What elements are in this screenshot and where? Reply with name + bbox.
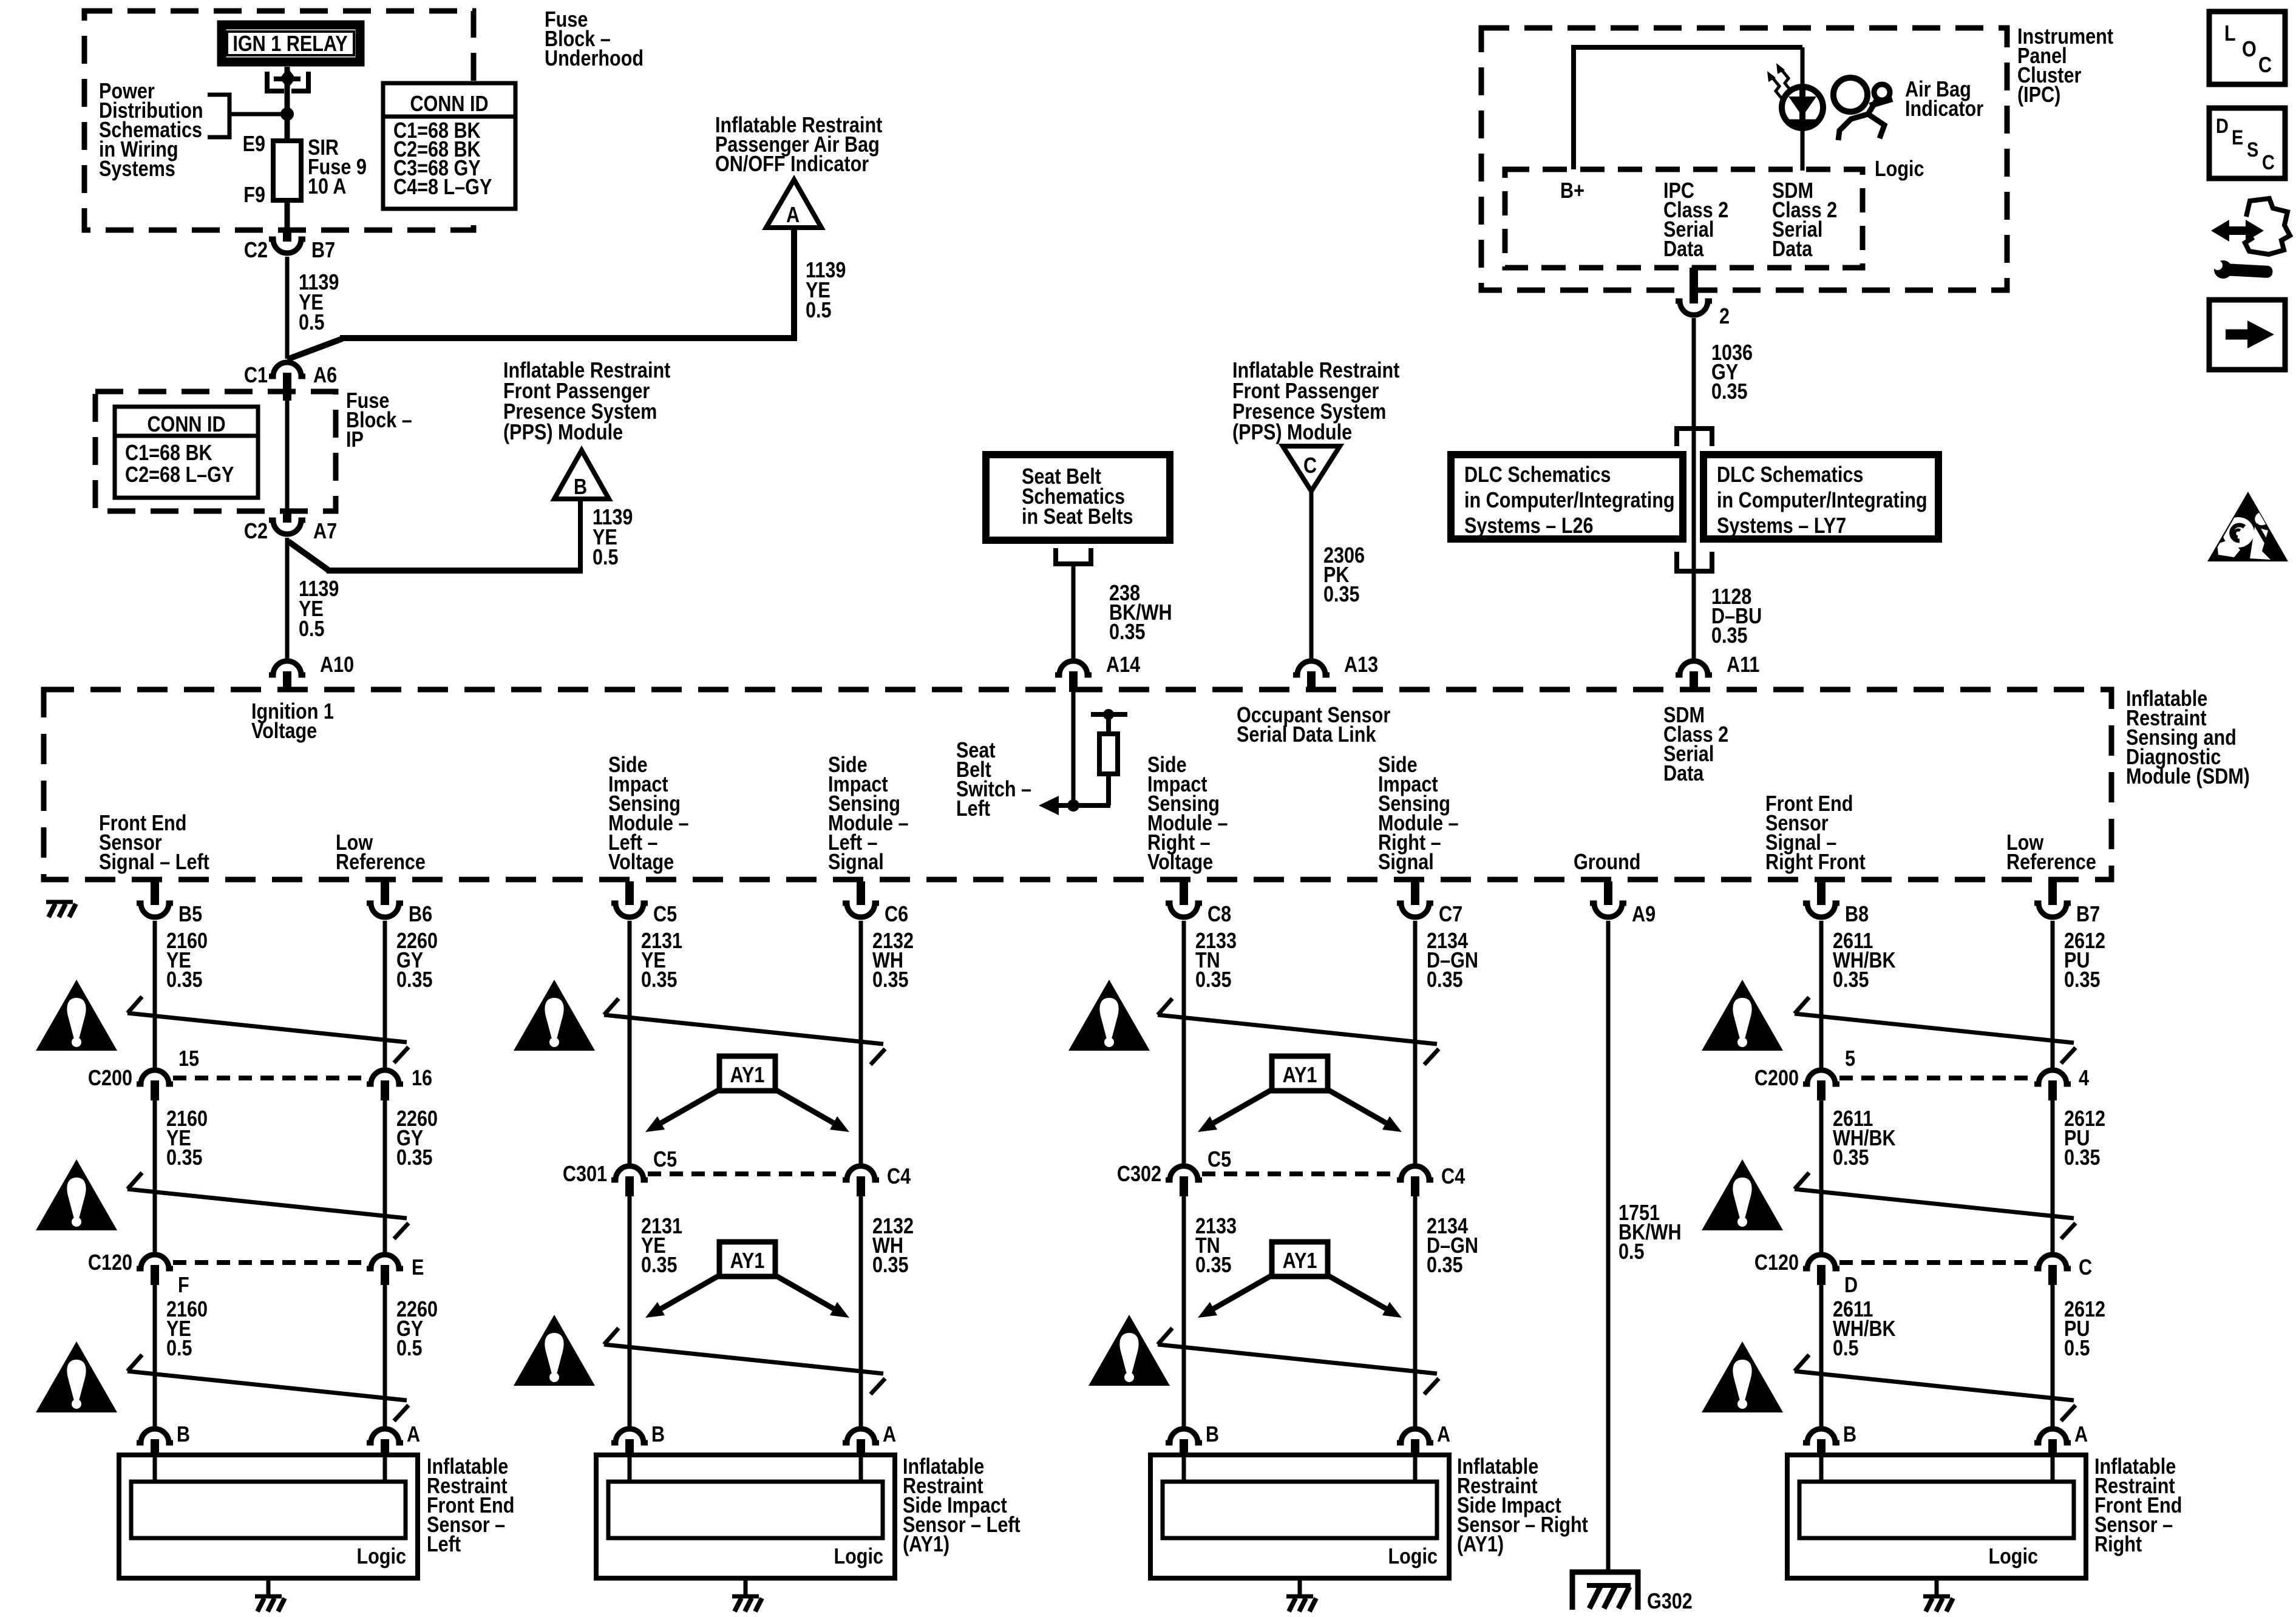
label Inflatable Restraint Side Impact Sensor Right AY1 [1457, 1455, 1588, 1557]
wire relay to junction [285, 67, 290, 116]
svg-text:C302: C302 [1117, 1162, 1161, 1187]
svg-text:4: 4 [2079, 1066, 2089, 1091]
svg-text:C1=68 BKC2=68 BKC3=68 GYC4=8 L: C1=68 BKC2=68 BKC3=68 GYC4=8 L–GY [393, 119, 492, 200]
wire junction to fuse [285, 114, 290, 143]
connector A right FES [2034, 1429, 2071, 1443]
label pin 4 [2079, 1066, 2089, 1091]
svg-text:C6: C6 [885, 903, 908, 927]
label Occupant Sensor Serial Data Link [1237, 703, 1390, 747]
svg-text:C5: C5 [653, 903, 677, 927]
label A9 [1632, 903, 1656, 927]
LED light arrows [1767, 63, 1792, 100]
label Inflatable Restraint Front End Sensor Left [427, 1455, 514, 1557]
label 2612 PU 0.35 row2 [2064, 1107, 2105, 1170]
label C302 [1117, 1162, 1161, 1187]
label 2612 PU 0.35 row1 [2064, 929, 2105, 992]
svg-text:B6: B6 [409, 903, 432, 927]
svg-text:AY1: AY1 [730, 1249, 765, 1273]
IPC logic dashed box [1505, 169, 1863, 268]
label A left SIS [883, 1423, 896, 1447]
connector C2-B7 stub [283, 230, 291, 242]
label A11 [1727, 653, 1759, 677]
wire LED to logic box [1801, 126, 1805, 171]
svg-text:2: 2 [1719, 305, 1730, 329]
label SDM Class 2 Serial Data in IPC [1772, 179, 1837, 262]
label 1139 YE 0.5 branch B [593, 506, 633, 570]
connector A right SIS stub [1411, 1439, 1419, 1457]
fuse F9 SIR Fuse 9 10A [273, 141, 301, 200]
svg-text:A: A [786, 203, 800, 228]
svg-text:AY1: AY1 [730, 1063, 765, 1088]
icon DESC box [2209, 108, 2285, 178]
label 2160 YE 0.35 row2 [166, 1107, 208, 1170]
svg-text:Logic: Logic [1388, 1545, 1438, 1569]
svg-text:O: O [2242, 38, 2257, 62]
label 1128 D-BU 0.35 [1711, 585, 1762, 648]
wire pin2 down [1692, 318, 1696, 659]
callout AY1 upper left [645, 1056, 849, 1132]
label 2131 YE 0.35 row1 [641, 929, 682, 992]
label Ignition 1 Voltage [251, 700, 334, 744]
svg-text:A6: A6 [313, 364, 337, 388]
twist marker 2 [604, 998, 885, 1065]
label B8 [1845, 903, 1869, 927]
wire segment row1 [1413, 921, 1418, 1164]
connector A11 [1676, 661, 1712, 675]
connector C2-A7 [269, 520, 305, 534]
wire B+ up and across [1574, 47, 1802, 169]
connector A10 [269, 661, 305, 675]
inflatable restraint front end sensor right box [1787, 1455, 2086, 1595]
label 2 [1719, 305, 1730, 329]
triangle ref A [766, 180, 821, 228]
label 2133 TN 0.35 row1 [1195, 929, 1237, 992]
connector C200 right pair [1803, 1070, 2071, 1100]
label pin 16 [412, 1066, 432, 1091]
twist marker 6 [1795, 1173, 2076, 1239]
wire diagonal to A branch [287, 339, 342, 359]
label Air Bag Indicator [1905, 78, 1983, 121]
connector B left FES [137, 1429, 173, 1443]
connector A right SIS [1397, 1429, 1433, 1443]
connector C302 pair [1166, 1166, 1433, 1196]
svg-text:L: L [2224, 22, 2236, 46]
label 2611 WH BK 0.5 row3 [1833, 1298, 1896, 1361]
label Side Impact Sensing Module Right Signal [1378, 753, 1459, 875]
fuse block underhood dashed box [84, 11, 474, 230]
wire segment row1 [2051, 921, 2055, 1068]
connector A left SIS stub [857, 1439, 865, 1457]
svg-text:A: A [2074, 1423, 2088, 1447]
ground below right FES [1923, 1596, 1953, 1612]
bracket to DLC [1677, 429, 1712, 446]
DLC schematics box L26 [1451, 455, 1683, 539]
label 1751 BK WH 0.5 [1618, 1201, 1682, 1264]
svg-text:B: B [1206, 1423, 1219, 1447]
ground wire A9 down [1606, 921, 1611, 1572]
label SIR Fuse 9 10 A [308, 136, 367, 199]
wire bracket to junction [229, 112, 287, 117]
svg-text:5: 5 [1845, 1047, 1855, 1071]
label SDM Class 2 Serial Data [1663, 703, 1728, 786]
svg-text:Occupant SensorSerial Data Lin: Occupant SensorSerial Data Link [1237, 703, 1390, 747]
warning triangle 7 [514, 1315, 595, 1386]
label Power Distribution Schematics in Wiring Systems [99, 80, 203, 181]
label Inflatable Restraint Passenger Air Bag ON OFF Indicator [715, 114, 882, 177]
label A6 [313, 364, 337, 388]
svg-text:C4: C4 [887, 1165, 911, 1189]
svg-text:A: A [1437, 1423, 1450, 1447]
wire segment row3 [2051, 1285, 2055, 1426]
label Fuse Block Underhood [545, 8, 644, 71]
svg-text:AY1: AY1 [1283, 1249, 1317, 1273]
wire seat belt to A14 [1072, 564, 1076, 659]
svg-text:E9: E9 [243, 132, 265, 157]
svg-text:C2: C2 [244, 239, 268, 263]
label pin F [178, 1273, 189, 1298]
label E9 [243, 132, 265, 157]
svg-text:CONN ID: CONN ID [147, 413, 225, 437]
svg-text:C200: C200 [1754, 1066, 1799, 1091]
label 2160 YE 0.35 row1 [166, 929, 208, 992]
label C2 at A7 [244, 520, 268, 544]
label 1139 YE 0.5 branch A [806, 259, 846, 323]
inflatable restraint side impact sensor left box [596, 1455, 895, 1595]
svg-text:Logic: Logic [356, 1545, 406, 1569]
label 238 BK WH 0.35 [1109, 581, 1172, 645]
bracket to power distribution [208, 95, 229, 137]
svg-text:G302: G302 [1647, 1590, 1693, 1614]
wire A branch horizontal [340, 335, 797, 341]
ground below left SIS [732, 1596, 762, 1612]
label C120 right [1754, 1251, 1799, 1275]
bracket below seat belt box [1056, 548, 1091, 564]
wire A branch vertical [791, 226, 797, 341]
label Seat Belt Switch Left [956, 739, 1031, 821]
svg-text:C7: C7 [1439, 903, 1462, 927]
twist marker 8 [1158, 1328, 1439, 1394]
svg-text:D: D [2216, 114, 2229, 138]
label Inflatable Restraint Side Impact Sensor Left AY1 [903, 1455, 1021, 1557]
label 2260 GY 0.5 row3 [396, 1298, 438, 1361]
svg-text:S: S [2247, 138, 2258, 161]
label G302 [1647, 1590, 1693, 1614]
label Low Reference right [2006, 831, 2096, 875]
label Inflatable Restraint Front Passenger Presence System PPS Module left [503, 359, 670, 445]
connector C6 [843, 903, 879, 917]
connector B left SIS stub [625, 1439, 634, 1457]
relay terminal bracket [267, 68, 308, 91]
svg-text:A7: A7 [313, 520, 337, 544]
wire B branch horizontal [327, 568, 583, 574]
svg-text:C: C [2079, 1256, 2092, 1280]
connector B left FES stub [151, 1439, 159, 1457]
svg-text:Logic: Logic [1875, 157, 1924, 181]
seat belt switch arrow [1039, 796, 1110, 815]
label C7 [1439, 903, 1462, 927]
wire segment row2 [1413, 1196, 1418, 1426]
connector B5 stub [151, 881, 159, 905]
svg-text:A14: A14 [1106, 653, 1140, 677]
svg-text:B+: B+ [1560, 179, 1584, 203]
svg-text:F: F [178, 1273, 189, 1298]
triangle ref C [1283, 446, 1340, 491]
svg-text:A9: A9 [1632, 903, 1656, 927]
svg-text:C120: C120 [1754, 1251, 1799, 1275]
wire B7 to C1 [285, 257, 290, 359]
label Side Impact Sensing Module Left Signal [828, 753, 909, 875]
svg-text:C2: C2 [244, 520, 268, 544]
twist marker 10 [1795, 1355, 2076, 1421]
twist marker 5 [127, 1173, 409, 1239]
twist marker 4 [1795, 997, 2076, 1063]
label pin C [2079, 1256, 2092, 1280]
connector C2-A7 stub [283, 511, 291, 523]
icon arrow box [2209, 300, 2285, 370]
label B5 [178, 903, 202, 927]
warning triangle 3 [1068, 980, 1150, 1051]
label B6 [409, 903, 432, 927]
conn id table IP [115, 407, 258, 498]
label 2260 GY 0.35 row1 [396, 929, 438, 992]
connector B6 stub [381, 881, 389, 905]
connector C8 [1166, 903, 1202, 917]
wire segment row2 [153, 1100, 157, 1252]
svg-text:C120: C120 [88, 1251, 132, 1275]
label Front End Sensor Signal Right Front [1765, 792, 1866, 875]
wire IPC pin2 inner [1692, 266, 1696, 279]
wire segment row2 [1819, 1100, 1824, 1252]
connector A left SIS [843, 1429, 879, 1443]
wire B branch vertical [578, 497, 583, 573]
label A right SIS [1437, 1423, 1450, 1447]
wire A7 down [285, 538, 290, 659]
svg-text:B7: B7 [2076, 903, 2100, 927]
connector A14 [1055, 661, 1092, 675]
connector B6 [367, 903, 403, 917]
connector B7 stub [2048, 881, 2057, 905]
twist marker 9 [127, 1355, 409, 1421]
label A left FES [407, 1423, 420, 1447]
callout AY1 upper right [1198, 1056, 1402, 1132]
twist marker 1 [127, 997, 409, 1063]
inflatable restraint front end sensor left box [119, 1455, 418, 1595]
wire segment row1 [1819, 921, 1824, 1068]
warning triangle 10 [1702, 1341, 1783, 1412]
label C120 left [88, 1251, 132, 1275]
instrument panel cluster dashed box [1481, 28, 2007, 290]
svg-text:Ground: Ground [1574, 850, 1640, 875]
svg-text:F9: F9 [243, 183, 265, 208]
label 2260 GY 0.35 row2 [396, 1107, 438, 1170]
wire C to A13 [1309, 489, 1314, 659]
svg-text:B: B [651, 1423, 665, 1447]
callout AY1 lower left [645, 1242, 849, 1318]
label C301 [563, 1162, 607, 1187]
ground G302 [1572, 1572, 1638, 1610]
label Seat Belt Schematics in Seat Belts [1022, 465, 1133, 529]
connector C2-B7 [269, 239, 305, 253]
svg-text:16: 16 [412, 1066, 432, 1091]
label 2133 TN 0.35 row2 [1195, 1215, 1237, 1278]
connector C6 stub [857, 881, 865, 905]
label 1036 GY 0.35 [1711, 341, 1753, 404]
label Ground [1574, 850, 1640, 875]
svg-text:CONN ID: CONN ID [410, 92, 488, 117]
wire segment row3 [383, 1285, 387, 1426]
label Instrument Panel Cluster IPC [2017, 25, 2113, 107]
inflatable restraint side impact sensor right box [1150, 1455, 1449, 1595]
icon arrows and wrench [2211, 198, 2290, 279]
label 1139 YE 0.5 segment1 [299, 271, 339, 335]
triangle ref B [554, 450, 609, 500]
connector A right FES stub [2048, 1439, 2057, 1457]
seat belt switch junction dot [1067, 799, 1079, 812]
label 2611 WH BK 0.35 row1 [1833, 929, 1896, 992]
connector B5 [137, 903, 173, 917]
label Inflatable Restraint Front End Sensor Right [2094, 1455, 2182, 1557]
connector C1-A6 [269, 362, 305, 376]
icon SIR caution triangle [2207, 492, 2288, 561]
icon LOC box [2209, 12, 2285, 84]
label B+ [1560, 179, 1584, 203]
svg-text:E: E [2232, 126, 2243, 149]
label A10 [320, 653, 354, 677]
svg-text:C8: C8 [1207, 903, 1231, 927]
label C200 left [88, 1066, 132, 1091]
connector B8 stub [1817, 881, 1826, 905]
seat belt switch resistor [1091, 709, 1127, 805]
label B right FES [1843, 1423, 1856, 1447]
connector B right SIS [1166, 1429, 1202, 1443]
connector C200 left pair [137, 1070, 403, 1100]
svg-text:C4: C4 [1441, 1165, 1465, 1189]
conn id table underhood [383, 83, 515, 209]
wire fuse to box edge [285, 200, 290, 232]
twist marker 7 [604, 1328, 885, 1394]
wire segment row2 [628, 1196, 632, 1426]
wire segment row1 [859, 921, 863, 1164]
connector C120 right pair [1803, 1255, 2071, 1285]
connector C8 stub [1180, 881, 1188, 905]
ground below left FES [255, 1596, 285, 1612]
ground below right SIS [1286, 1596, 1316, 1612]
label pin E [412, 1256, 424, 1280]
bracket below DLC boxes [1677, 552, 1712, 571]
label C302 C5 [1207, 1148, 1231, 1172]
conn id rows underhood [393, 119, 492, 200]
wire top to LED [1801, 47, 1805, 89]
connector 2 stub [1690, 268, 1698, 303]
label 2160 YE 0.5 row3 [166, 1298, 208, 1361]
label C2 left of B7 [244, 239, 268, 263]
label 2611 WH BK 0.35 row2 [1833, 1107, 1896, 1170]
svg-text:B7: B7 [311, 239, 335, 263]
svg-text:B: B [177, 1423, 190, 1447]
LED indicator lamp [1782, 87, 1823, 128]
label IPC Class 2 Serial Data [1663, 179, 1728, 262]
label Fuse Block IP [346, 389, 412, 452]
connector 2 [1676, 301, 1712, 315]
seat belt schematics box [986, 455, 1170, 540]
conn id title IP [147, 413, 225, 437]
wire segment row1 [383, 921, 387, 1068]
wire segment row2 [1182, 1196, 1186, 1426]
air bag indicator icon [1833, 78, 1892, 140]
warning triangle 2 [514, 980, 595, 1051]
wire DLC to A11 [1692, 571, 1696, 659]
svg-text:Inflatable RestraintPassenger: Inflatable RestraintPassenger Air BagON/… [715, 114, 882, 177]
DLC schematics box LY7 [1703, 455, 1938, 539]
label 2131 YE 0.35 row2 [641, 1215, 682, 1278]
wire segment row2 [859, 1196, 863, 1426]
label A14 [1106, 653, 1140, 677]
connector B right FES [1803, 1429, 1839, 1443]
connector C120 left pair [137, 1255, 403, 1285]
label Inflatable Restraint Sensing and Diagnostic Module SDM [2126, 687, 2250, 789]
svg-text:E: E [412, 1256, 424, 1280]
wire segment row2 [383, 1100, 387, 1252]
label IGN 1 RELAY [233, 32, 347, 56]
SDM dashed box [44, 690, 2111, 880]
wire A14 inside [1072, 692, 1076, 805]
svg-text:C301: C301 [563, 1162, 607, 1187]
label B left FES [177, 1423, 190, 1447]
connector C7 [1397, 903, 1433, 917]
svg-text:AY1: AY1 [1283, 1063, 1317, 1088]
svg-text:C5: C5 [1207, 1148, 1231, 1172]
conn id rows IP [125, 441, 234, 487]
svg-text:A11: A11 [1727, 653, 1759, 677]
connector B left SIS [611, 1429, 648, 1443]
label Side Impact Sensing Module Right Voltage [1147, 753, 1228, 875]
label pin 5 [1845, 1047, 1855, 1071]
warning triangle 6 [1702, 1159, 1783, 1230]
label Low Reference left [336, 831, 426, 875]
connector C7 stub [1411, 881, 1419, 905]
twist marker 3 [1158, 998, 1439, 1065]
svg-text:C200: C200 [88, 1066, 132, 1091]
svg-text:B8: B8 [1845, 903, 1869, 927]
wire segment row3 [1819, 1285, 1824, 1426]
connector C301 pair [611, 1166, 879, 1196]
callout AY1 lower right [1198, 1242, 1402, 1318]
label 2306 PK 0.35 [1323, 544, 1365, 607]
label B7 [2076, 903, 2100, 927]
label C8 [1207, 903, 1231, 927]
svg-text:D: D [1844, 1273, 1858, 1298]
label C1 [244, 364, 268, 388]
wire diagonal to B branch [288, 541, 329, 571]
svg-text:C: C [1303, 454, 1317, 478]
svg-text:IGN 1 RELAY: IGN 1 RELAY [233, 32, 347, 56]
connector B right FES stub [1817, 1439, 1826, 1457]
svg-text:C1: C1 [244, 364, 268, 388]
label A right FES [2074, 1423, 2088, 1447]
label 2132 WH 0.35 row1 [872, 929, 914, 992]
label Front End Sensor Signal Left [99, 812, 209, 875]
label 1139 YE 0.5 segment2 [299, 577, 339, 642]
connector A13 stub [1307, 671, 1316, 692]
label C200 right [1754, 1066, 1799, 1091]
svg-text:Logic: Logic [834, 1545, 883, 1569]
connector B right SIS stub [1180, 1439, 1188, 1457]
label F9 [243, 183, 265, 208]
svg-text:C: C [2258, 53, 2272, 78]
label C301 C5 [653, 1148, 677, 1172]
ground tick at SDM corner [46, 902, 76, 917]
svg-text:Logic: Logic [1988, 1545, 2038, 1569]
